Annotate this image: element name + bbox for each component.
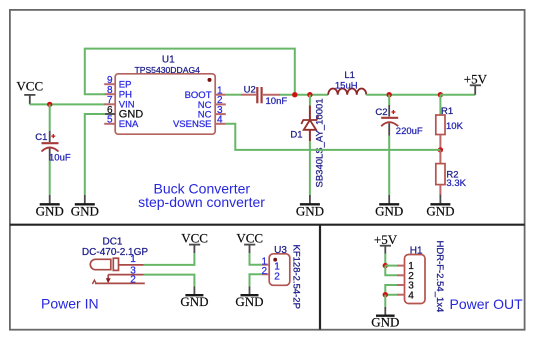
svg-text:TPS5430DDAG4: TPS5430DDAG4 — [134, 65, 200, 75]
wire VSENSE feedback — [226, 124, 441, 150]
ground (under C1) — [36, 195, 64, 218]
wire D1 to GND — [309, 141, 311, 195]
svg-text:VCC: VCC — [236, 230, 263, 245]
svg-text:KF128-2.54-2P: KF128-2.54-2P — [290, 245, 301, 309]
power flag VCC (top) — [16, 79, 43, 105]
ground (under R2) — [426, 195, 454, 219]
svg-text:VSENSE: VSENSE — [173, 119, 212, 130]
svg-text:SB340LS_AY_10001: SB340LS_AY_10001 — [314, 98, 325, 187]
junction node D1 tap — [307, 92, 312, 97]
svg-text:GND: GND — [375, 203, 403, 218]
svg-text:2: 2 — [274, 271, 280, 282]
capacitor U2 — [241, 84, 287, 107]
pin 1 BOOT — [215, 94, 226, 96]
svg-text:10K: 10K — [446, 121, 464, 132]
wire H1 pins 3,4 to GND — [385, 285, 397, 295]
svg-text:15uH: 15uH — [335, 81, 358, 92]
svg-text:VCC: VCC — [16, 79, 43, 94]
svg-text:DC1: DC1 — [102, 236, 122, 247]
ground (under U1 GND) — [71, 195, 99, 218]
pin 9 EP — [104, 83, 115, 85]
wire C1 to GND — [49, 161, 51, 196]
svg-text:GND: GND — [296, 203, 324, 218]
wire VCC to U3 pin1 — [250, 253, 262, 265]
diode D1 (schottky) — [290, 98, 325, 187]
pin 3 NC — [215, 113, 226, 115]
junction node PH loop — [292, 92, 297, 97]
wire L1 to C2 junction — [366, 94, 440, 96]
svg-text:U2: U2 — [244, 84, 256, 95]
svg-text:Power IN: Power IN — [41, 296, 99, 312]
wire to +5V flag — [440, 94, 475, 96]
ground (under D1) — [296, 195, 324, 218]
capacitor C1 — [35, 131, 71, 163]
wire C2 branch — [388, 95, 390, 105]
svg-text:L1: L1 — [344, 70, 355, 81]
resistor R1 — [436, 106, 464, 150]
wire VCC to VIN — [30, 103, 105, 105]
svg-text:3.3K: 3.3K — [446, 178, 466, 189]
svg-text:GND: GND — [426, 203, 454, 218]
svg-text:5: 5 — [107, 115, 113, 126]
wire DC1 pin3 to GND — [144, 275, 195, 287]
svg-text:1: 1 — [130, 254, 136, 265]
ground (under C2) — [375, 195, 403, 218]
svg-text:GND: GND — [235, 294, 263, 309]
svg-text:10nF: 10nF — [266, 96, 288, 107]
ground (power in) — [180, 287, 208, 310]
connector H1 HDR-F-2.54_1x4 — [397, 241, 445, 313]
wire R1 branch — [439, 95, 441, 115]
svg-text:+5V: +5V — [464, 71, 488, 86]
wire PH loop up and over — [85, 49, 295, 95]
power flag VCC (power in) — [181, 230, 208, 253]
svg-text:U3: U3 — [274, 245, 287, 256]
svg-text:HDR-F-2.54_1x4: HDR-F-2.54_1x4 — [434, 241, 445, 313]
wire +5V to H1 pins 1,2 — [384, 254, 386, 266]
svg-text:step-down converter: step-down converter — [138, 194, 265, 210]
power flag +5V (top) — [464, 71, 488, 94]
svg-text:2: 2 — [130, 274, 136, 285]
power flag +5V (power out) — [374, 232, 398, 254]
junction node C2 tap — [387, 92, 392, 97]
ground (U3) — [235, 287, 263, 310]
svg-text:Power OUT: Power OUT — [450, 296, 524, 312]
svg-text:D1: D1 — [290, 130, 302, 141]
pin 2 NC — [215, 103, 226, 105]
svg-text:U1: U1 — [162, 54, 175, 65]
inductor L1 — [328, 70, 366, 95]
svg-text:ENA: ENA — [119, 119, 139, 130]
svg-text:+5V: +5V — [374, 232, 398, 247]
op chip U1 TPS5430DDAG4 — [104, 54, 226, 134]
connector U3 KF128-2.54-2P — [261, 245, 301, 309]
svg-text:DC-470-2.1GP: DC-470-2.1GP — [82, 247, 148, 258]
section divider vertical — [319, 225, 321, 330]
pin 8 PH — [104, 93, 115, 95]
section divider horizontal — [10, 224, 525, 226]
svg-text:C2: C2 — [375, 107, 387, 118]
svg-text:VCC: VCC — [181, 230, 208, 245]
pin 4 VSENSE — [215, 123, 226, 125]
resistor R2 — [436, 150, 467, 195]
power flag VCC (U3) — [236, 230, 263, 253]
svg-text:GND: GND — [71, 203, 99, 218]
wire BOOT to U2 — [226, 94, 241, 96]
diode D1 branch wire — [309, 95, 311, 106]
wire DC1 pin1 to VCC — [144, 253, 195, 265]
capacitor C2 — [375, 105, 423, 137]
wire C2 to GND — [388, 136, 390, 196]
svg-text:4: 4 — [217, 115, 223, 126]
ground (power out) — [371, 307, 399, 330]
pin 6 GND — [104, 113, 115, 115]
svg-text:4: 4 — [408, 290, 414, 301]
svg-text:GND: GND — [36, 203, 64, 218]
svg-text:10uF: 10uF — [49, 152, 71, 163]
wire U1 GND to ground — [85, 114, 105, 195]
svg-text:GND: GND — [180, 294, 208, 309]
pin 5 ENA — [104, 123, 115, 125]
wire C1 branch down — [49, 104, 51, 131]
svg-text:2: 2 — [261, 266, 267, 277]
junction node R1 tap — [438, 92, 443, 97]
svg-text:220uF: 220uF — [396, 126, 423, 137]
svg-text:H1: H1 — [410, 245, 423, 256]
svg-text:R1: R1 — [441, 106, 453, 117]
pin 7 VIN — [104, 103, 115, 105]
svg-text:C1: C1 — [35, 132, 47, 143]
wire U2 to L1 — [280, 94, 328, 96]
junction node VCC/C1 — [47, 102, 52, 107]
svg-text:GND: GND — [371, 315, 399, 330]
wire U3 pin2 to GND — [250, 274, 262, 286]
junction node FB — [438, 147, 443, 152]
connector DC1 (barrel jack) — [82, 236, 148, 285]
